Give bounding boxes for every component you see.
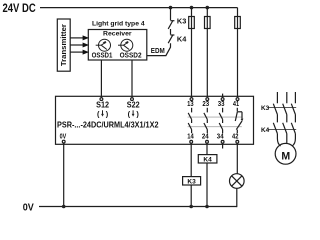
svg-text:K3: K3 xyxy=(177,19,187,26)
contact K3 NC (feedback) xyxy=(168,19,186,29)
wire EDM drop xyxy=(170,8,172,21)
wire lamp to 0V rail xyxy=(236,188,239,206)
wire coil K3 to 0V rail xyxy=(190,185,192,207)
svg-text:K4: K4 xyxy=(203,156,212,163)
svg-text:EDM: EDM xyxy=(151,46,165,55)
svg-text:13: 13 xyxy=(187,99,194,108)
terminal 13 xyxy=(187,98,194,109)
svg-text:PSR-...-24DC/URML4/3X1/1X2: PSR-...-24DC/URML4/3X1/1X2 xyxy=(57,120,159,130)
fuse F3 xyxy=(235,8,241,98)
svg-text:0V: 0V xyxy=(60,132,67,141)
node junction 24V/EDM xyxy=(169,6,173,10)
motor M xyxy=(275,143,296,164)
svg-text:24: 24 xyxy=(202,132,209,141)
svg-text:K4: K4 xyxy=(261,127,269,134)
contactor K3 main contacts xyxy=(261,92,296,122)
contact path 33-34 xyxy=(219,108,222,133)
node junction 0V/K4 xyxy=(205,205,209,209)
contact path 13-14 xyxy=(188,108,191,133)
svg-text:): ) xyxy=(136,109,139,118)
terminal 41 xyxy=(233,98,239,109)
svg-text:K4: K4 xyxy=(177,37,187,44)
OSSD2 output symbol xyxy=(118,39,133,51)
wire OSSD1 to S12 xyxy=(100,60,102,97)
svg-text:Receiver: Receiver xyxy=(103,31,132,38)
wire between K3 and K4 contacts xyxy=(170,29,172,35)
wires contactor to motor xyxy=(277,134,295,146)
coil K4 xyxy=(198,155,217,164)
wire 14 to coil K3 xyxy=(190,143,192,177)
svg-text:(: ( xyxy=(97,109,100,118)
mechanical link line lower xyxy=(188,126,242,128)
svg-text:(: ( xyxy=(128,109,131,118)
svg-text:41: 41 xyxy=(233,99,239,108)
node junction 24V/F2 xyxy=(206,6,210,10)
terminal 23 xyxy=(202,98,209,109)
fuse F2 xyxy=(205,8,211,98)
svg-text:S12: S12 xyxy=(96,100,110,109)
svg-text:Light grid type 4: Light grid type 4 xyxy=(92,21,145,28)
svg-text:23: 23 xyxy=(202,99,209,108)
svg-text:34: 34 xyxy=(217,132,224,141)
terminal 42 xyxy=(232,132,239,144)
transmitter xyxy=(57,19,70,71)
terminal S22 xyxy=(127,98,141,119)
coil K3 xyxy=(183,177,201,186)
light beam arrows xyxy=(70,35,89,54)
wire coil K4 to 0V rail xyxy=(206,163,208,207)
terminal S12 xyxy=(96,98,110,119)
wire OSSD2 to S22 xyxy=(131,60,133,97)
wire K4 contact to EDM input xyxy=(147,43,171,55)
svg-text:S22: S22 xyxy=(127,100,141,109)
contact path 23-24 xyxy=(204,108,207,133)
contact K4 NC (feedback) xyxy=(168,35,186,44)
terminal 0V xyxy=(60,132,67,144)
indicator lamp xyxy=(230,174,245,189)
wire 24V DC top rail xyxy=(40,7,238,9)
svg-text:14: 14 xyxy=(187,132,194,141)
receiver box xyxy=(88,30,147,61)
mechanical link line upper xyxy=(188,116,242,118)
svg-text:): ) xyxy=(106,109,109,118)
safety relay PSR box xyxy=(56,96,254,144)
svg-text:K3: K3 xyxy=(261,105,269,112)
svg-text:24V DC: 24V DC xyxy=(3,3,36,15)
node junction 24V/F1 xyxy=(190,6,194,10)
svg-text:OSSD2: OSSD2 xyxy=(120,52,142,59)
wire 42 to lamp xyxy=(236,143,238,174)
svg-text:M: M xyxy=(281,151,290,163)
wire 0V terminal to 0V rail xyxy=(63,143,65,207)
terminal 33 xyxy=(218,94,225,109)
wire 24 to coil K4 xyxy=(206,143,208,155)
svg-text:33: 33 xyxy=(218,99,225,108)
terminal 24 xyxy=(202,132,209,144)
contact path 41-42 NC forced-guided xyxy=(235,108,243,133)
node junction 0V/K3 xyxy=(189,205,193,209)
wire 0V bottom rail xyxy=(39,206,237,208)
OSSD1 output symbol xyxy=(96,39,111,51)
fuse F1 xyxy=(189,8,195,98)
svg-text:OSSD1: OSSD1 xyxy=(92,52,113,59)
node junction 0V/relay xyxy=(62,205,66,209)
svg-text:Transmitter: Transmitter xyxy=(59,24,68,66)
svg-text:42: 42 xyxy=(232,132,238,141)
terminal 14 xyxy=(187,132,194,144)
terminal 34 xyxy=(217,132,224,149)
contactor K4 main contacts xyxy=(261,123,296,134)
svg-text:K3: K3 xyxy=(187,178,196,185)
svg-text:0V: 0V xyxy=(23,203,34,214)
